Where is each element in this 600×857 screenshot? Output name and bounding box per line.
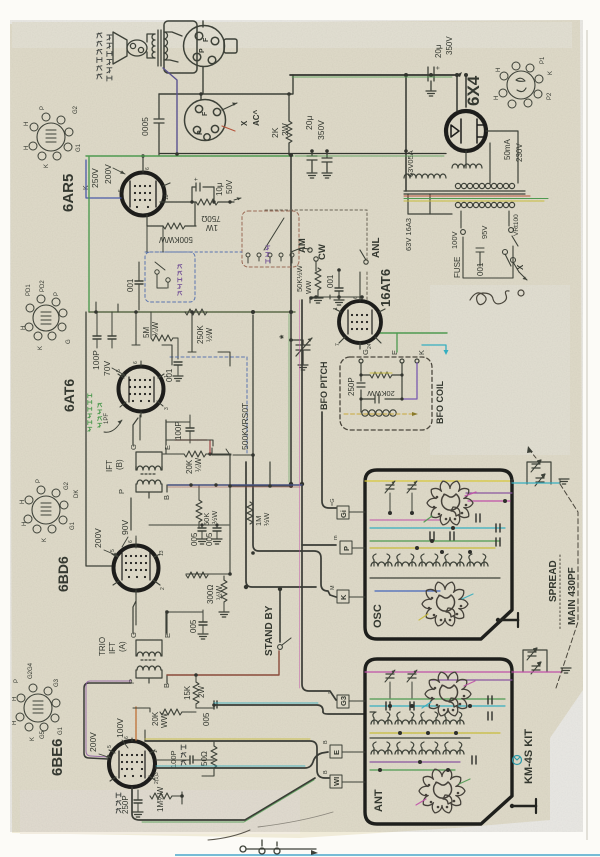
svg-text:K: K (44, 164, 50, 168)
svg-text:B: B (162, 495, 171, 500)
svg-text:1PF: 1PF (104, 413, 110, 424)
svg-text:VRt100: VRt100 (513, 214, 520, 236)
svg-text:G1: G1 (58, 726, 64, 735)
svg-text:G: G (361, 349, 370, 355)
svg-text:6: 6 (145, 167, 151, 170)
svg-text:7: 7 (335, 343, 341, 346)
svg-text:3: 3 (164, 407, 170, 410)
svg-text:250P: 250P (347, 377, 356, 396)
svg-text:750Ω: 750Ω (201, 214, 220, 223)
svg-text:50K½W: 50K½W (295, 264, 304, 292)
svg-text:CW: CW (317, 244, 328, 260)
svg-text:K: K (548, 71, 554, 75)
svg-text:M: M (330, 585, 336, 590)
svg-text:K: K (30, 737, 36, 741)
svg-text:90V: 90V (120, 520, 130, 535)
svg-text:200V: 200V (93, 528, 103, 548)
svg-text:001: 001 (476, 262, 485, 276)
svg-text:H: H (21, 326, 27, 330)
svg-text:G2: G2 (64, 481, 70, 490)
svg-text:350V: 350V (316, 120, 326, 140)
svg-text:20KWW: 20KWW (366, 389, 394, 398)
svg-text:DK: DK (74, 490, 80, 498)
svg-text:H: H (12, 697, 18, 701)
svg-text:1: 1 (153, 750, 159, 753)
svg-text:16AT6: 16AT6 (378, 269, 393, 307)
svg-text:G2G4: G2G4 (28, 662, 34, 679)
svg-text:500KVRS0T: 500KVRS0T (240, 403, 250, 450)
svg-text:BFO COIL: BFO COIL (435, 381, 445, 424)
svg-text:1M¼W: 1M¼W (156, 786, 165, 812)
svg-text:F: F (203, 37, 210, 42)
svg-text:m: m (333, 535, 339, 540)
svg-text:Gi: Gi (339, 510, 348, 518)
svg-text:P: P (117, 489, 126, 494)
svg-text:50mA: 50mA (503, 138, 512, 160)
svg-text:G1: G1 (76, 143, 82, 152)
svg-text:G3: G3 (54, 678, 60, 687)
svg-text:KM-4S KIT: KM-4S KIT (523, 729, 535, 784)
svg-text:95V: 95V (480, 226, 489, 239)
svg-text:2: 2 (160, 587, 166, 590)
svg-text:K: K (339, 594, 348, 600)
svg-text:20μ: 20μ (304, 116, 314, 130)
svg-text:005: 005 (202, 712, 211, 726)
svg-text:PD2: PD2 (40, 280, 46, 292)
svg-text:FUSE: FUSE (453, 257, 462, 278)
svg-text:250V: 250V (90, 168, 100, 188)
svg-text:X: X (516, 264, 525, 270)
svg-text:70V: 70V (102, 361, 112, 376)
svg-text:H: H (20, 500, 26, 504)
svg-text:250P: 250P (121, 795, 130, 814)
svg-text:6BE6: 6BE6 (49, 738, 66, 776)
svg-text:IFT: IFT (105, 460, 114, 472)
svg-text:6AT6: 6AT6 (61, 379, 77, 412)
svg-text:H: H (12, 721, 18, 725)
svg-text:P2: P2 (547, 92, 553, 100)
svg-text:P: P (199, 48, 206, 53)
svg-text:5: 5 (107, 745, 113, 748)
svg-text:P: P (197, 130, 204, 135)
svg-text:G2: G2 (73, 105, 79, 114)
svg-text:H: H (24, 122, 30, 126)
svg-text:20K: 20K (185, 459, 194, 474)
svg-text:ANL: ANL (371, 237, 382, 258)
svg-text:½W: ½W (210, 510, 219, 524)
svg-text:200V: 200V (88, 732, 98, 752)
svg-text:50V: 50V (225, 179, 234, 194)
svg-text:13: 13 (164, 194, 170, 200)
svg-text:G: G (66, 339, 72, 344)
svg-text:AC^: AC^ (252, 109, 261, 126)
svg-text:P: P (54, 292, 60, 296)
svg-text:G5: G5 (40, 730, 46, 739)
svg-text:5M: 5M (142, 327, 151, 338)
svg-text:300Ω: 300Ω (206, 585, 215, 604)
svg-text:P1: P1 (540, 56, 546, 64)
svg-text:PD1: PD1 (26, 284, 32, 296)
svg-text:WW: WW (306, 280, 313, 294)
svg-text:100V: 100V (450, 231, 459, 249)
svg-text:1W: 1W (206, 223, 218, 232)
svg-text:(B): (B) (115, 459, 124, 470)
svg-text:0005: 0005 (140, 117, 150, 136)
svg-text:20μ: 20μ (434, 44, 443, 58)
svg-text:BFO PITCH: BFO PITCH (319, 362, 329, 411)
svg-text:K: K (417, 350, 426, 355)
svg-text:(A): (A) (118, 641, 127, 652)
svg-text:001: 001 (165, 368, 174, 382)
svg-text:½W: ½W (205, 327, 214, 342)
svg-text:5: 5 (118, 189, 124, 192)
svg-text:6: 6 (353, 296, 359, 299)
svg-text:G1: G1 (70, 521, 76, 530)
svg-text:G3: G3 (339, 696, 348, 706)
svg-text:6: 6 (133, 361, 139, 364)
svg-text:500KWW: 500KWW (159, 235, 193, 244)
svg-text:H: H (24, 146, 30, 150)
svg-text:TRIO: TRIO (98, 637, 107, 656)
svg-text:230V: 230V (515, 143, 524, 162)
svg-text:B: B (323, 770, 329, 774)
svg-text:K: K (38, 346, 44, 350)
svg-text:ANT: ANT (373, 789, 385, 812)
svg-text:H: H (494, 96, 500, 100)
svg-text:IFT: IFT (108, 642, 117, 654)
svg-text:13: 13 (159, 550, 165, 556)
svg-text:=G: =G (330, 499, 336, 507)
svg-text:X: X (240, 120, 249, 126)
svg-text:OSC: OSC (372, 604, 384, 628)
svg-text:005: 005 (189, 619, 198, 633)
svg-text:E: E (163, 445, 172, 450)
svg-text:MAIN 430PF: MAIN 430PF (567, 567, 578, 625)
svg-text:P: P (14, 679, 20, 683)
svg-text:+: + (194, 177, 200, 181)
svg-text:6BD6: 6BD6 (55, 556, 71, 592)
svg-text:B: B (323, 740, 329, 744)
svg-text:1: 1 (333, 307, 339, 310)
svg-text:P: P (40, 106, 46, 110)
svg-text:24: 24 (367, 343, 373, 349)
svg-text:6X4: 6X4 (464, 75, 483, 106)
svg-text:P: P (36, 479, 42, 483)
svg-text:¼W: ¼W (194, 457, 203, 472)
svg-text:*: * (278, 334, 290, 339)
svg-text:100P: 100P (174, 421, 183, 440)
svg-text:AM: AM (297, 238, 308, 253)
svg-text:100V: 100V (115, 718, 125, 738)
svg-text:H: H (22, 522, 28, 526)
svg-text:63V05A: 63V05A (406, 150, 415, 177)
svg-text:250K: 250K (196, 325, 205, 344)
svg-text:350V: 350V (445, 36, 454, 55)
svg-text:20K: 20K (151, 711, 160, 726)
svg-text:63V 16A3: 63V 16A3 (404, 218, 413, 251)
svg-text:10μ: 10μ (215, 182, 224, 196)
svg-text:5: 5 (110, 549, 116, 552)
svg-text:100P: 100P (169, 750, 178, 768)
svg-text:WI: WI (332, 777, 341, 786)
svg-text:200V: 200V (103, 164, 113, 184)
svg-text:100P: 100P (91, 350, 101, 370)
svg-text:K: K (42, 538, 48, 542)
svg-text:STAND BY: STAND BY (264, 605, 275, 656)
svg-text:6AR5: 6AR5 (60, 174, 77, 212)
svg-text:2(1)3: 2(1)3 (154, 772, 160, 784)
svg-text:001: 001 (126, 278, 135, 292)
svg-text:15K: 15K (183, 685, 192, 700)
svg-text:F: F (202, 111, 209, 116)
svg-text:B: B (162, 683, 171, 688)
svg-text:2K: 2K (270, 127, 280, 138)
svg-text:+: + (435, 66, 442, 70)
svg-text:6: 6 (128, 540, 134, 543)
svg-text:½W: ½W (262, 512, 271, 526)
svg-text:001: 001 (326, 274, 335, 288)
svg-text:E: E (332, 750, 341, 755)
svg-text:H: H (496, 68, 502, 72)
svg-text:SPREAD: SPREAD (548, 560, 559, 602)
svg-text:50Ω: 50Ω (200, 751, 209, 766)
svg-text:P: P (342, 546, 351, 551)
svg-text:¼W: ¼W (151, 321, 160, 336)
